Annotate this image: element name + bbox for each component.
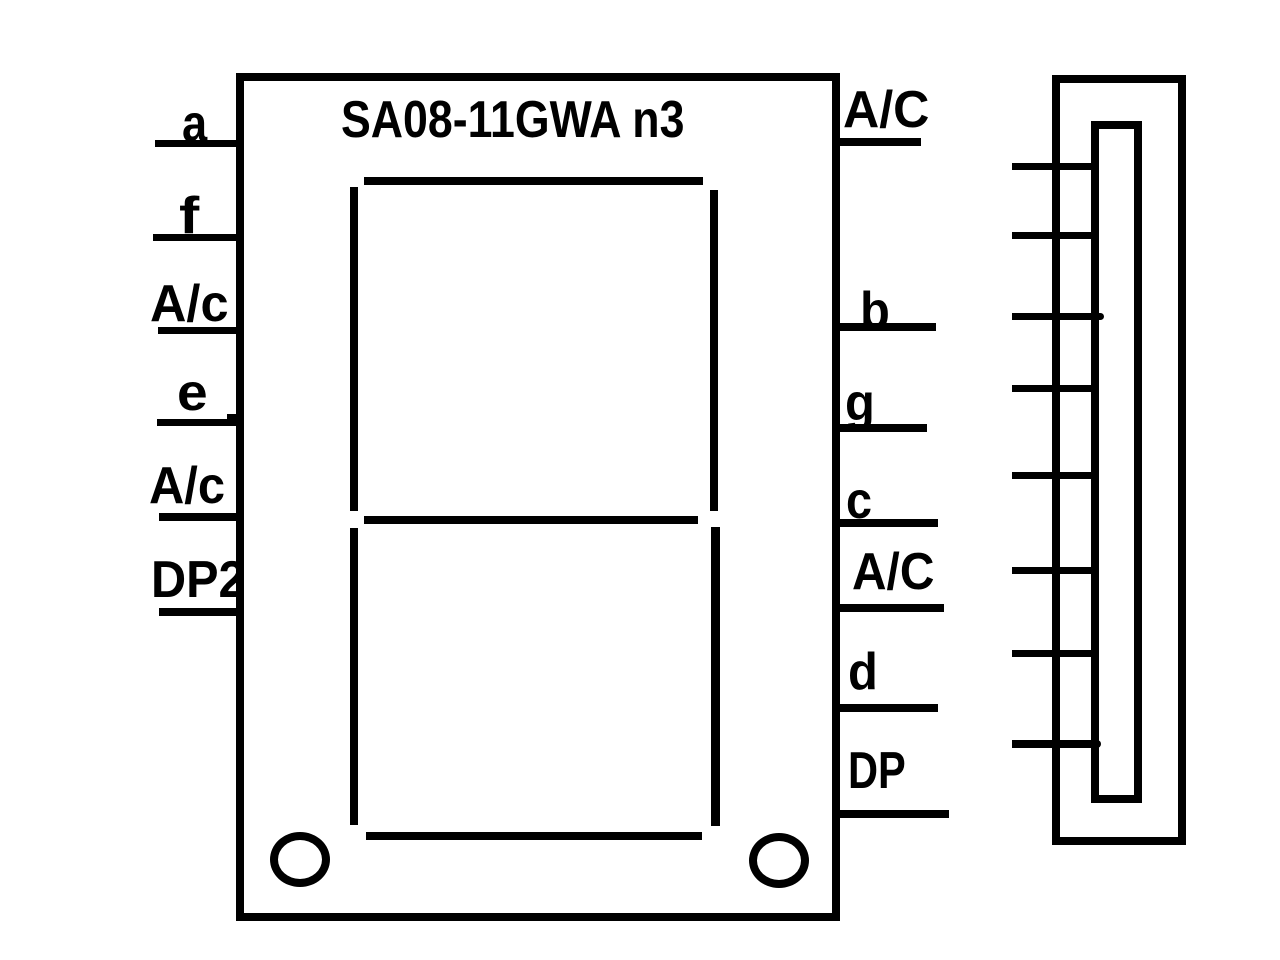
pin DP2 wire: [159, 608, 244, 616]
pin b label: [860, 285, 890, 337]
pin e wire: [157, 419, 244, 426]
pin A/C (right top) label: [843, 84, 929, 136]
part number label SA08-11GWA n3: [341, 94, 684, 146]
pin DP wire: [832, 810, 949, 818]
pin c wire: [832, 519, 938, 527]
pin DP label: [848, 745, 906, 797]
side pin 2: [1012, 232, 1098, 239]
pin d wire: [832, 704, 938, 712]
pin A/C (right mid) wire: [832, 604, 944, 612]
segment d (bottom horizontal): [366, 832, 702, 840]
pin A/c (left lower) wire: [159, 513, 244, 521]
pin c label: [846, 475, 872, 527]
pin g wire: [832, 424, 927, 432]
side pin 8: [1012, 740, 1101, 748]
segment c (lower-right vertical): [711, 527, 720, 826]
segment f (upper-left vertical): [350, 187, 358, 511]
pin a label: [182, 98, 207, 150]
IC body rectangle U1: [236, 73, 840, 921]
pin e label: [177, 367, 208, 419]
segment b (upper-right vertical): [710, 190, 718, 511]
pin A/c (left upper) label: [150, 278, 228, 330]
side pin 3: [1012, 313, 1104, 320]
right decimal point circle: [749, 833, 809, 888]
pin DP2 label: [151, 554, 246, 606]
pin e wire jog: [227, 414, 239, 421]
pin A/C (right mid) label: [852, 546, 934, 598]
segment e (lower-left vertical): [350, 528, 358, 825]
side view inner body: [1091, 121, 1142, 803]
pin d label: [848, 646, 878, 698]
side view outer body: [1052, 75, 1186, 845]
pin f label: [179, 190, 199, 242]
pin A/C (right top) wire: [832, 138, 921, 146]
pin A/c (left lower) label: [149, 460, 225, 512]
pin b wire: [832, 323, 936, 331]
segment a (top horizontal): [364, 177, 703, 185]
side pin 4: [1012, 385, 1098, 392]
side pin 7: [1012, 650, 1098, 657]
left decimal point circle: [270, 832, 330, 887]
pin A/c (left upper) wire: [158, 327, 244, 334]
pin a wire: [155, 140, 244, 147]
pin g label: [845, 377, 875, 429]
side pin 1: [1012, 163, 1098, 170]
segment g (middle horizontal): [364, 516, 698, 524]
side pin 6: [1012, 567, 1098, 574]
side pin 5: [1012, 472, 1098, 479]
pin f wire: [153, 234, 244, 241]
